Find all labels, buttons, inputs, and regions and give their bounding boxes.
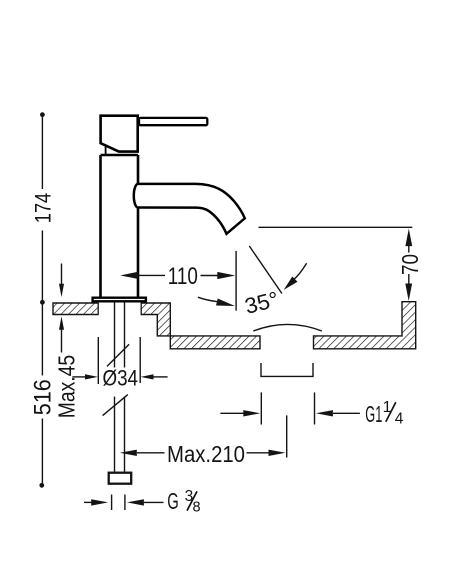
svg-text:174: 174 <box>30 193 55 224</box>
svg-text:4: 4 <box>395 410 404 427</box>
svg-text:8: 8 <box>193 499 201 515</box>
svg-text:Max.210: Max.210 <box>167 441 245 467</box>
svg-text:Ø34: Ø34 <box>103 365 139 390</box>
svg-text:110: 110 <box>168 263 198 290</box>
svg-text:G1: G1 <box>365 401 382 427</box>
svg-text:Max.45: Max.45 <box>53 355 79 419</box>
svg-text:G: G <box>167 488 179 514</box>
svg-text:70: 70 <box>397 254 423 275</box>
